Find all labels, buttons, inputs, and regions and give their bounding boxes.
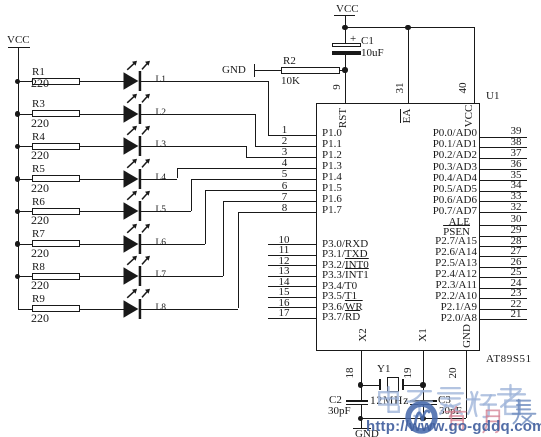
resistor R9 220	[32, 305, 80, 312]
wire - pin 36 stub	[479, 169, 527, 170]
wire - rail to R9	[18, 309, 33, 310]
label AT89S51	[486, 353, 532, 365]
wire - rail to R4	[18, 146, 33, 147]
resistor R4 220	[32, 143, 80, 150]
pin name RST (rotated)	[337, 88, 349, 148]
wire - pin 21 stub	[479, 319, 527, 320]
resistor R8 220	[32, 273, 80, 280]
watermark glyph you (red)	[442, 405, 469, 432]
wire - pin 29 stub	[479, 236, 527, 237]
pin name P3.7/<spa	[322, 311, 360, 323]
label C3	[438, 394, 451, 406]
wire - into pin 8 of U1	[238, 212, 316, 213]
resistor R5 220	[32, 175, 80, 182]
wire - pin 25 stub	[479, 277, 527, 278]
wire - R7 to LED L6	[80, 244, 124, 245]
pin number 28	[506, 235, 526, 247]
wire - L7 cathode to corner	[141, 276, 223, 277]
pin name P2.1/A9	[350, 301, 477, 313]
wire - into pin 3 of U1	[246, 157, 316, 158]
junction - rail / R8	[15, 274, 20, 279]
label L5	[156, 204, 167, 216]
wire - L1 cathode to corner	[141, 81, 268, 82]
junction - EA line	[405, 25, 410, 30]
watermark glyph yue (red)	[479, 407, 506, 434]
wire - rail to R7	[18, 244, 33, 245]
resistor R3 220	[32, 110, 80, 117]
pin number 39	[506, 125, 526, 137]
pin number 24	[506, 277, 526, 289]
wire - GND to R2	[254, 70, 281, 71]
resistor R1 220	[32, 78, 80, 85]
power symbol VCC (left rail)	[7, 34, 30, 46]
pin name P2.5/A13	[350, 257, 477, 269]
wire - C2 to ground rail	[361, 405, 362, 418]
wire - L8 cathode to corner	[141, 309, 238, 310]
pin number 36	[506, 158, 526, 170]
junction - rail / R4	[15, 144, 20, 149]
wire - C1 to RST pin 9	[345, 55, 346, 103]
pin name P2.2/A10	[350, 290, 477, 302]
label L4	[156, 172, 167, 184]
wire - R3 to LED L2	[80, 114, 124, 115]
pin name P0.0/AD0	[350, 127, 477, 139]
wire - R2 to RST node	[339, 70, 345, 71]
pin name P1.5	[322, 182, 342, 194]
wire - pin 34 stub	[479, 191, 527, 192]
watermark URL text	[366, 418, 541, 435]
wire - pin 17 stub	[268, 318, 316, 319]
pin number 34	[506, 179, 526, 191]
pin number 14	[274, 276, 294, 288]
wire - left VCC rail	[18, 48, 19, 309]
pin number 5	[276, 168, 293, 180]
wire - ground rail	[361, 418, 467, 419]
pin name ALE	[350, 216, 470, 228]
label R2	[283, 55, 296, 67]
junction - rail / R6	[15, 209, 20, 214]
label L2	[156, 107, 167, 119]
wire - pin 32 stub	[479, 212, 527, 213]
wire - pin 38 stub	[479, 147, 527, 148]
pin name P1.7	[322, 204, 342, 216]
label L8	[156, 302, 167, 314]
junction - rail / R1	[15, 79, 20, 84]
wire - pin 22 stub	[479, 309, 527, 310]
wire - rail to R6	[18, 211, 33, 212]
wire - L3 cathode to corner	[141, 146, 246, 147]
LED L2	[120, 88, 154, 128]
wire - into pin 5 of U1	[191, 179, 316, 180]
pin name P3.3/<spa	[322, 269, 369, 281]
pin name PSEN	[350, 226, 470, 238]
capacitor C2 30pF	[346, 400, 368, 402]
junction - RST node	[342, 67, 347, 72]
power symbol VCC (top)	[336, 3, 359, 15]
watermark glyph zhe (blue)	[495, 383, 528, 416]
pin number 17	[274, 307, 294, 319]
wire - to pin 40 VCC	[474, 27, 475, 103]
pin name VCC (rotated)	[463, 86, 475, 146]
junction - X2 / crystal	[358, 382, 363, 387]
LED L5	[120, 185, 154, 225]
junction - VCC node	[342, 25, 347, 30]
pin name P1.1	[322, 138, 342, 150]
wire - into pin 1 of U1	[268, 135, 316, 136]
pin name P0.6/AD6	[350, 194, 477, 206]
pin name P2.7/A15	[350, 235, 477, 247]
pin name P1.3	[322, 160, 342, 172]
pin number 12	[274, 255, 294, 267]
pin name P0.1/AD1	[350, 138, 477, 150]
watermark glyph hao (blue)	[464, 387, 497, 420]
pin name P3.6/<spa	[322, 301, 363, 313]
pin number 22	[506, 298, 526, 310]
pin name P0.4/AD4	[350, 172, 477, 184]
wire - pin 16 stub	[268, 307, 316, 308]
op-amp U1 AT89S51 microcontroller body	[316, 103, 480, 351]
junction - rail / R3	[15, 111, 20, 116]
pin name P3.4/T0	[322, 280, 357, 292]
resistor R7 220	[32, 240, 80, 247]
junction - ground rail / C2	[358, 416, 363, 421]
pin number 11	[274, 244, 294, 256]
pin number 23	[506, 287, 526, 299]
pin number 26	[506, 256, 526, 268]
capacitor C3 30pF	[410, 400, 437, 402]
watermark glyph chang (medium blue)	[510, 398, 538, 426]
label Y1	[377, 363, 390, 375]
wire - into pin 7 of U1	[223, 201, 316, 202]
wire - pin 27 stub	[479, 256, 527, 257]
wire - vertical to pin 5	[191, 179, 192, 211]
pin number 8	[276, 202, 293, 214]
wire - R5 to LED L4	[80, 179, 124, 180]
wire - pin 39 stub	[479, 137, 527, 138]
wire - VCC to C1	[345, 27, 346, 43]
pin name P0.2/AD2	[350, 149, 477, 161]
wire - pin 26 stub	[479, 267, 527, 268]
pin name EA with overline (rotated)	[401, 86, 413, 146]
pin name P2.0/A8	[350, 312, 477, 324]
wire - vertical to pin 3	[246, 146, 247, 157]
pin name P3.1/TXD	[322, 248, 368, 260]
resistor R6 220	[32, 208, 80, 215]
wire - L6 cathode to corner	[141, 244, 205, 245]
pin number 35	[506, 169, 526, 181]
label L3	[156, 139, 167, 151]
wire - crystal right to X1	[404, 385, 424, 386]
pin name X2 (rotated)	[357, 305, 369, 365]
label 30pF (C2)	[328, 405, 351, 417]
pin number 25	[506, 266, 526, 278]
wire - pin 23 stub	[479, 298, 527, 299]
pin number 33	[506, 190, 526, 202]
pin name X1 (rotated)	[417, 305, 429, 365]
watermark glyph dian (blue)	[372, 385, 405, 418]
wire - rail to R5	[18, 179, 33, 180]
label L1	[156, 74, 167, 86]
pin number 15	[274, 286, 294, 298]
capacitor C1 10uF electrolytic	[332, 43, 361, 47]
wire - vertical to pin 1	[268, 81, 269, 135]
wire - pin 30 stub	[479, 225, 527, 226]
pin name P3.2/<spa	[322, 259, 369, 271]
wire - vertical to pin 6	[205, 190, 206, 244]
pin number 38	[506, 136, 526, 148]
wire - pin 20 GND down	[466, 351, 467, 419]
pin number 9 (rotated)	[331, 57, 343, 117]
wire - pin 24 stub	[479, 288, 527, 289]
wire - L4 cathode to corner	[141, 179, 177, 180]
wire - pin 28 stub	[479, 246, 527, 247]
label C2	[329, 394, 342, 406]
wire - into pin 2 of U1	[255, 146, 316, 147]
pin number 29	[506, 224, 526, 236]
junction - rail / R5	[15, 176, 20, 181]
LED L7	[120, 250, 154, 290]
pin number 18 (rotated)	[344, 343, 356, 403]
LED L4	[120, 153, 154, 193]
pin number 2	[276, 135, 293, 147]
wire - to pin 31 EA	[408, 27, 409, 103]
wire - pin 14 stub	[268, 286, 316, 287]
wire - VCC stem	[345, 16, 346, 27]
pin name P2.6/A14	[350, 246, 477, 258]
wire - vertical to pin 2	[255, 114, 256, 146]
wire - pin 33 stub	[479, 201, 527, 202]
watermark glyph ai (blue)	[434, 384, 467, 417]
ground GND (top, at R2)	[254, 64, 255, 77]
label L6	[156, 237, 167, 249]
junction - ground rail / C3	[420, 416, 425, 421]
wire - VCC top rail	[345, 27, 474, 28]
pin name P0.5/AD5	[350, 183, 477, 195]
wire - R8 to LED L7	[80, 276, 124, 277]
wire - vertical to pin 4	[177, 168, 178, 179]
pin number 4	[276, 157, 293, 169]
wire - R4 to LED L3	[80, 146, 124, 147]
wire - pin 37 stub	[479, 158, 527, 159]
wire - to GND symbol	[361, 418, 362, 429]
wire - L2 cathode to corner	[141, 114, 255, 115]
wire - rail to R1	[18, 81, 33, 82]
wire - pin 15 stub	[268, 297, 316, 298]
pin number 3	[276, 146, 293, 158]
pin name P3.5/T1	[322, 290, 357, 302]
pin number 31 (rotated)	[394, 58, 406, 118]
pin number 10	[274, 234, 294, 246]
pin number 1	[276, 124, 293, 136]
pin name P0.7/AD7	[350, 205, 477, 217]
resistor R2 10K	[281, 67, 340, 74]
watermark ring logo	[403, 399, 441, 437]
pin name GND (rotated)	[461, 306, 473, 366]
pin number 16	[274, 297, 294, 309]
wire - rail to R3	[18, 114, 33, 115]
wire - into pin 6 of U1	[205, 190, 316, 191]
wire - R1 to LED L1	[80, 81, 124, 82]
label + polarity	[350, 33, 356, 45]
wire - pin 19 X1 down	[423, 351, 424, 401]
junction - rail / R7	[15, 241, 20, 246]
wire - pin 11 stub	[268, 255, 316, 256]
label L7	[156, 269, 167, 281]
pin name P2.3/A11	[350, 279, 477, 291]
label 10uF	[361, 47, 384, 59]
pin name P2.4/A12	[350, 268, 477, 280]
wire - to crystal left	[361, 385, 380, 386]
wire - pin 18 X2 down	[361, 351, 362, 401]
wire - R6 to LED L5	[80, 211, 124, 212]
pin number 19 (rotated)	[402, 343, 414, 403]
wire - rail to R8	[18, 276, 33, 277]
ground GND (bottom)	[353, 428, 371, 429]
pin number 37	[506, 147, 526, 159]
LED L8	[120, 283, 154, 323]
LED L6	[120, 218, 154, 258]
wire - pin 10 stub	[268, 244, 316, 245]
label 12MHz	[370, 395, 409, 407]
pin number 40 (rotated)	[457, 58, 469, 118]
wire - pin 35 stub	[479, 180, 527, 181]
wire - pin 12 stub	[268, 265, 316, 266]
watermark glyph zi (blue)	[403, 385, 436, 418]
LED L3	[120, 120, 154, 160]
crystal Y1 12MHz	[379, 379, 381, 390]
LED L1	[120, 55, 154, 95]
pin number 13	[274, 265, 294, 277]
pin name P1.2	[322, 149, 342, 161]
pin name P3.0/RXD	[322, 238, 368, 250]
pin number 6	[276, 180, 293, 192]
wire - vertical to pin 8	[238, 212, 239, 308]
pin name P1.0	[322, 127, 342, 139]
wire - pin 13 stub	[268, 276, 316, 277]
pin number 30	[506, 213, 526, 225]
junction - X1 / crystal	[420, 382, 425, 387]
label 30pF (C3)	[439, 405, 462, 417]
pin number 21	[506, 308, 526, 320]
label 10K	[281, 75, 300, 87]
pin number 7	[276, 191, 293, 203]
wire - L5 cathode to corner	[141, 211, 191, 212]
wire - R9 to LED L8	[80, 309, 124, 310]
wire - into pin 4 of U1	[177, 168, 316, 169]
pin number 20 (rotated)	[447, 343, 459, 403]
wire - vertical to pin 7	[223, 201, 224, 276]
pin name P1.4	[322, 171, 342, 183]
pin number 27	[506, 245, 526, 257]
wire - C3 to ground rail	[423, 405, 424, 418]
pin name P1.6	[322, 193, 342, 205]
pin name P0.3/AD3	[350, 161, 477, 173]
pin number 32	[506, 201, 526, 213]
label U1	[486, 90, 499, 102]
label C1	[361, 35, 374, 47]
